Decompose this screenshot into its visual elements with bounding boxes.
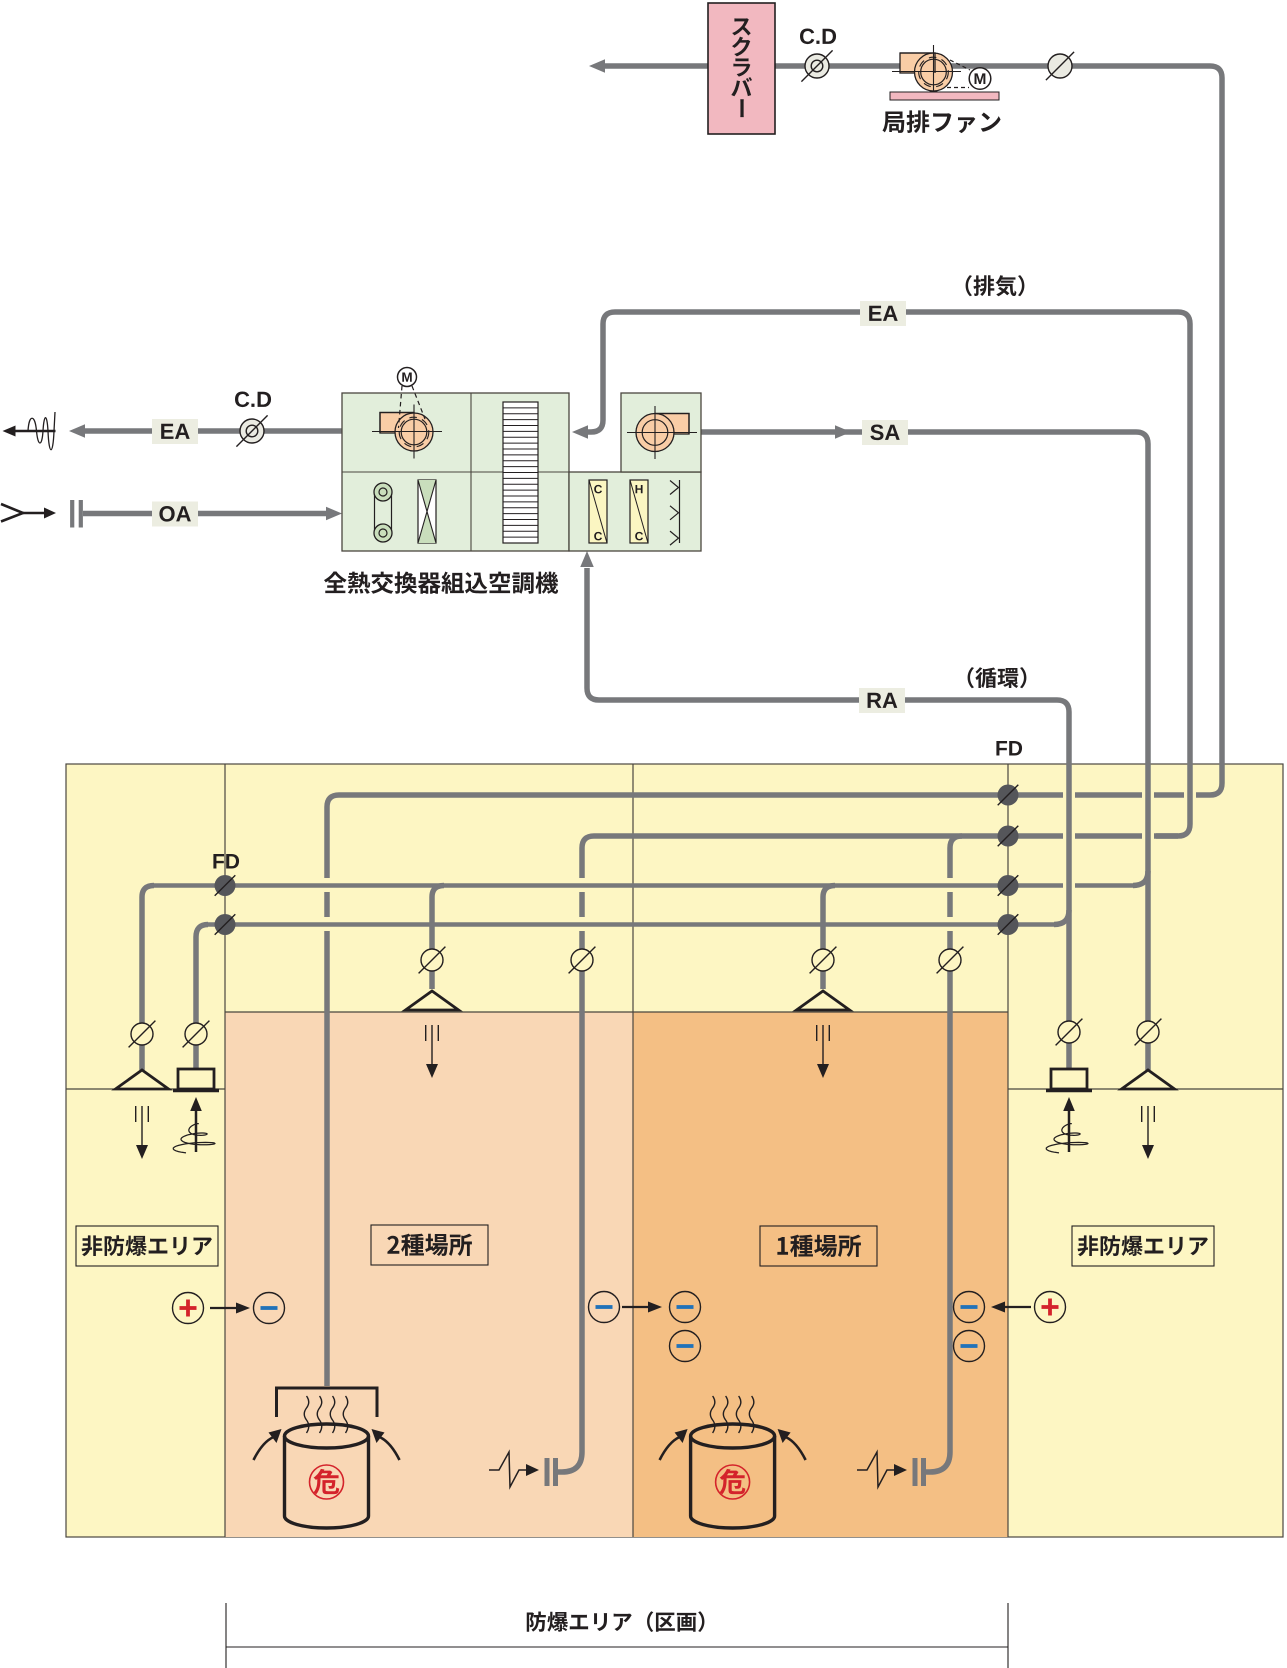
label SA bbox=[862, 420, 908, 445]
fire damper FD line4 left wall bbox=[215, 914, 236, 935]
local exhaust fan base bbox=[890, 92, 999, 100]
left wall line bbox=[224, 764, 226, 1537]
volume damper zone-2 penetration riser bbox=[571, 949, 593, 971]
pressure minus zone-1 left lower bbox=[670, 1331, 701, 1362]
label 循環 bbox=[968, 667, 1027, 688]
pressure plus right bbox=[1035, 1292, 1066, 1323]
fire damper FD line3 left wall bbox=[215, 875, 236, 896]
wire: RA elbow into ceiling line 4 bbox=[1054, 910, 1069, 925]
zone-1 room background bbox=[633, 1012, 1008, 1537]
volume damper zone-1 diffuser riser bbox=[812, 949, 834, 971]
flow arrow middle bbox=[622, 1306, 652, 1308]
volume damper right diffuser riser bbox=[1137, 1021, 1159, 1043]
volume damper left grill riser bbox=[185, 1023, 207, 1045]
zone-1 supply diffuser bbox=[797, 991, 850, 1010]
label 防爆エリア（区画） bbox=[527, 1611, 705, 1632]
FD label left bbox=[213, 854, 239, 868]
label 全熱交換器組込空調機 bbox=[324, 572, 558, 594]
right ceiling line bbox=[1008, 1088, 1283, 1090]
volume damper zone-1 penetration riser bbox=[939, 949, 961, 971]
hazardous tank zone-2 bbox=[283, 1436, 286, 1516]
pressure minus zone-2 right bbox=[589, 1292, 620, 1323]
non-exproof area background (yellow) bbox=[66, 764, 1283, 1537]
zone-2 local exhaust hood bbox=[277, 1388, 378, 1417]
label 1種場所 bbox=[760, 1226, 877, 1266]
wire: OA duct into AHU bbox=[83, 511, 326, 517]
fire damper FD line3 right wall bbox=[998, 875, 1019, 896]
wire: line 2 branch elbow down to zone-1 penetration riser bbox=[926, 836, 962, 1472]
left ceiling line bbox=[66, 1088, 225, 1090]
damper C.D at scrubber outlet bbox=[805, 54, 829, 78]
AHU eliminator bbox=[679, 480, 681, 543]
wire: line 2 left elbow down to zone-2 penetration riser bbox=[558, 836, 594, 1472]
AHU coil section casing bbox=[569, 472, 701, 551]
pressure minus zone-1 right upper bbox=[954, 1292, 985, 1323]
wire: line 1 left elbow down to hood riser bbox=[327, 795, 339, 1386]
pressure plus left bbox=[173, 1293, 204, 1324]
wire: line 3 branch down to zone-1 diffuser bbox=[823, 886, 835, 990]
wire: line 4 left elbow down to left return grill bbox=[196, 925, 208, 1071]
wire: ceiling line 2 (EA header) bbox=[594, 833, 1178, 839]
OA duct end bars bbox=[70, 500, 74, 528]
AHU panel filter bbox=[418, 480, 436, 543]
zone-2 room background bbox=[225, 1012, 633, 1537]
damper after local exhaust fan bbox=[1048, 54, 1072, 78]
AHU exhaust fan bbox=[372, 405, 442, 459]
flow arrow left bbox=[210, 1307, 240, 1309]
fire damper FD line2 right wall bbox=[998, 826, 1019, 847]
scrubber bbox=[708, 3, 775, 134]
dimension ticks 防爆エリア bbox=[225, 1603, 227, 1668]
wire: EA duct from AHU to outside bbox=[84, 428, 342, 434]
wire: ceiling line 4 (RA header) bbox=[208, 922, 1058, 926]
zone-2 tank vapors bbox=[304, 1396, 309, 1433]
wire: ceiling line 3 (SA header) bbox=[154, 883, 1137, 887]
AHU roll filter bbox=[374, 492, 376, 533]
arrowhead exhaust to atmosphere (top left) bbox=[589, 59, 605, 73]
right supply diffuser bbox=[1122, 1070, 1175, 1089]
pressure minus zone-1 right lower bbox=[954, 1331, 985, 1362]
wire: SA supply duct from AHU down right side bbox=[701, 432, 1148, 1070]
wire: ceiling line 1 (local exhaust header) bbox=[339, 792, 1210, 798]
pressure minus zone-1 left upper bbox=[670, 1292, 701, 1323]
pressure minus zone-2 left bbox=[254, 1293, 285, 1324]
FD label right bbox=[996, 741, 1022, 755]
wire: line 3 branch down to zone-2 diffuser bbox=[432, 886, 444, 990]
label EA (AHU outlet) bbox=[152, 419, 198, 444]
zone-2 tank intake arrows bbox=[254, 1437, 274, 1460]
zone-1 tank intake arrows bbox=[660, 1437, 680, 1460]
middle wall line (zone divider) bbox=[632, 764, 634, 1537]
arrowhead RA up into AHU bbox=[580, 551, 594, 567]
volume damper right grill riser bbox=[1058, 1021, 1080, 1043]
damper C.D on AHU EA outlet bbox=[240, 419, 264, 443]
arrowhead EA into AHU heat exchanger bbox=[572, 425, 588, 439]
wire: EA exhaust duct from AHU to pit level bbox=[580, 312, 1190, 836]
room top boundary line bbox=[225, 1011, 1008, 1013]
label 2種場所 bbox=[371, 1225, 488, 1265]
arrowhead SA flow direction bbox=[835, 425, 851, 439]
label 非防爆エリア left bbox=[76, 1226, 218, 1266]
volume damper left diffuser riser bbox=[131, 1023, 153, 1045]
volume damper zone-2 diffuser riser bbox=[421, 949, 443, 971]
zone-1 tank vapors bbox=[710, 1396, 715, 1433]
zone-2 wall penetration duct end bbox=[545, 1458, 550, 1486]
right wall line bbox=[1007, 764, 1009, 1537]
wire: local exhaust duct to scrubber (top run + right drop) bbox=[601, 66, 1222, 795]
hazardous tank zone-1 bbox=[689, 1436, 692, 1516]
right return grill bbox=[1051, 1069, 1087, 1089]
zone-2 supply diffuser bbox=[406, 991, 459, 1010]
outside air intake symbol bbox=[1, 504, 23, 522]
label RA bbox=[859, 688, 905, 713]
AHU cooling coil C/C bbox=[589, 480, 607, 543]
label 排気 bbox=[966, 275, 1025, 296]
zone-1 wall penetration duct end bbox=[913, 1458, 918, 1486]
fire damper FD line4 right wall bbox=[998, 914, 1019, 935]
AHU main casing bbox=[342, 393, 569, 551]
local exhaust fan bbox=[892, 45, 961, 92]
wire: SA elbow into ceiling branch line bbox=[1133, 871, 1148, 886]
wire: RA return duct from rooms up to AHU bbox=[587, 568, 1069, 1070]
fire damper FD line1 right wall bbox=[998, 785, 1019, 806]
label 非防爆エリア right bbox=[1072, 1226, 1214, 1266]
exhaust outlet symbol with swirl bbox=[13, 430, 56, 433]
label EA (top) bbox=[860, 301, 906, 326]
flow arrow right bbox=[1001, 1306, 1031, 1308]
motor M of AHU exhaust fan bbox=[399, 386, 403, 428]
AHU heating coil H/C bbox=[630, 480, 648, 543]
left return grill bbox=[178, 1069, 214, 1089]
AHU supply fan bbox=[627, 406, 697, 459]
label 局排ファン bbox=[882, 110, 1000, 133]
motor M of local exhaust fan bbox=[950, 60, 970, 70]
left supply diffuser bbox=[116, 1070, 169, 1089]
AHU total heat exchanger bbox=[503, 402, 538, 543]
label OA bbox=[152, 502, 198, 527]
AHU supply fan casing bbox=[621, 393, 701, 472]
wire: line 3 left elbow down to left diffuser bbox=[142, 886, 154, 1071]
